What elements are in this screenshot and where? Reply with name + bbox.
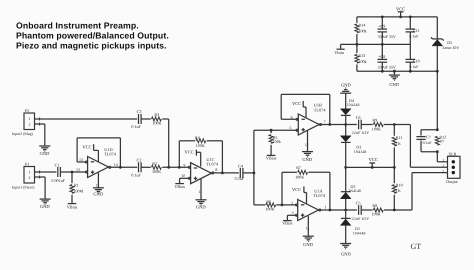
wire C4 to split node: [243, 172, 254, 174]
pin 14 output wire: [108, 166, 137, 168]
svg-text:C4: C4: [238, 163, 243, 168]
diode D1 1N4148: [345, 210, 347, 218]
node junction R11 R10: [393, 166, 396, 169]
svg-text:13: 13: [79, 157, 83, 162]
resistor R1: [71, 172, 73, 183]
connector P2: [24, 113, 35, 130]
op-amp U1A TL074: [298, 200, 319, 221]
resistor R3: [152, 117, 162, 121]
svg-text:7: 7: [324, 119, 326, 124]
svg-text:0.1uF: 0.1uF: [409, 65, 419, 69]
pin 7 output wire: [319, 124, 357, 126]
svg-text:VCC: VCC: [185, 150, 194, 155]
svg-text:Zener 30V: Zener 30V: [442, 46, 459, 50]
pin 11 ground wire U1D: [97, 173, 99, 188]
svg-text:+C8: +C8: [378, 54, 385, 59]
wire C1 to U1D pin12: [61, 171, 88, 173]
svg-text:C5: C5: [356, 200, 361, 205]
svg-text:D5: D5: [447, 40, 452, 45]
svg-text:VBias: VBias: [67, 204, 78, 209]
svg-text:8: 8: [215, 167, 217, 172]
svg-text:C1: C1: [55, 162, 60, 167]
pin 11 ground wire U1A: [307, 216, 309, 236]
power VCC on rail: [371, 163, 373, 167]
svg-text:1: 1: [29, 169, 31, 174]
svg-text:C3: C3: [137, 109, 142, 114]
wire to U1B pin5: [254, 129, 298, 131]
svg-text:GND: GND: [389, 82, 399, 87]
capacitor C11: [409, 17, 411, 29]
ground GND at U1D: [93, 187, 104, 189]
svg-text:GND: GND: [40, 151, 50, 156]
wire VCC rail to zener: [436, 17, 438, 39]
wire R3 to mid row: [162, 118, 169, 120]
node junction feedback U1B: [328, 123, 331, 126]
svg-text:1: 1: [29, 116, 31, 121]
node junction at R1: [71, 171, 74, 174]
svg-text:Piezo and magnetic pickups inp: Piezo and magnetic pickups inputs.: [16, 40, 167, 50]
svg-text:TL074: TL074: [206, 161, 219, 166]
node junction D2 on row: [344, 209, 347, 212]
svg-text:GT: GT: [411, 242, 422, 251]
power VBias at R5: [267, 154, 276, 156]
svg-text:P2: P2: [25, 108, 29, 113]
svg-text:1K: 1K: [396, 141, 401, 146]
resistor R13: [356, 44, 358, 53]
wire to R6: [254, 204, 265, 206]
capacitor C3: [138, 114, 140, 124]
svg-text:Onboard Instrument Preamp.: Onboard Instrument Preamp.: [16, 21, 139, 31]
svg-text:100K: 100K: [295, 175, 304, 180]
wire riser to XLR pin 3: [411, 173, 413, 210]
svg-text:100K: 100K: [372, 126, 381, 131]
svg-text:100K: 100K: [265, 206, 274, 211]
svg-text:1N4148: 1N4148: [353, 231, 366, 235]
svg-text:100M: 100M: [73, 189, 83, 194]
ground GND power section: [393, 71, 395, 75]
svg-text:GND: GND: [303, 242, 313, 247]
capacitor C4: [239, 168, 241, 178]
svg-text:100K: 100K: [372, 212, 381, 217]
svg-text:VBias: VBias: [174, 184, 185, 189]
svg-text:1N4148: 1N4148: [354, 150, 367, 154]
svg-text:330uF 35V: 330uF 35V: [378, 65, 396, 70]
power VBias at R1: [68, 203, 77, 205]
svg-text:6: 6: [291, 115, 293, 120]
node junction R4 feedback: [178, 166, 181, 169]
node junction D4 on row: [344, 123, 347, 126]
diode D2 1N4148: [345, 167, 347, 191]
resistor R9: [373, 123, 383, 127]
ground GND at P1: [40, 198, 51, 200]
power VBias at U1C: [175, 183, 184, 185]
ground GND at U1C: [196, 199, 207, 201]
svg-text:Vbias: Vbias: [334, 50, 344, 55]
svg-text:R11: R11: [396, 135, 403, 140]
ground GND at P2: [39, 145, 50, 147]
svg-text:11: 11: [306, 226, 310, 230]
svg-text:C6: C6: [356, 115, 361, 120]
svg-text:2: 2: [29, 175, 31, 180]
node junction R7 output: [329, 209, 332, 212]
wire VCC rail: [346, 166, 395, 168]
svg-text:Input1 (Piezo): Input1 (Piezo): [12, 186, 35, 190]
wire P1 pin2 to ground: [40, 176, 45, 178]
svg-text:0.001uF: 0.001uF: [51, 178, 65, 183]
svg-text:22uF 63V: 22uF 63V: [352, 216, 370, 221]
node junction R10 bottom: [393, 209, 396, 212]
pin 11 ground wire U1C: [200, 179, 202, 200]
capacitor C7 loop: [421, 129, 437, 131]
resistor R12: [435, 136, 439, 145]
title text: [16, 21, 169, 51]
node junction D3 on VCC rail: [344, 166, 347, 169]
power VBias at U1A: [283, 220, 292, 222]
svg-text:10: 10: [439, 139, 443, 144]
node junction R11 top: [393, 123, 396, 126]
svg-text:R4: R4: [195, 135, 200, 140]
svg-text:1N4148: 1N4148: [348, 189, 361, 193]
capacitor C9: [381, 17, 383, 29]
node junction C7 bottom: [436, 150, 439, 153]
svg-text:R6: R6: [266, 199, 271, 204]
ground GND at U1B: [302, 151, 313, 153]
svg-text:C2: C2: [137, 157, 142, 162]
svg-text:2: 2: [442, 164, 444, 168]
wire bottom rail: [357, 70, 437, 72]
svg-text:R14: R14: [358, 22, 365, 27]
pin 6 wire: [281, 118, 298, 120]
svg-text:10: 10: [181, 173, 185, 178]
diode D4 1N4148: [340, 109, 351, 115]
op-amp U1B TL074: [298, 114, 319, 135]
node output junction U1D: [119, 166, 122, 169]
svg-text:R7: R7: [296, 165, 301, 170]
resistor R14: [356, 17, 358, 23]
node junction R7 feedback: [281, 204, 284, 207]
svg-text:D4: D4: [349, 98, 354, 103]
svg-text:P1: P1: [25, 162, 29, 167]
svg-text:9: 9: [183, 162, 185, 167]
node junction R4 output: [221, 172, 224, 175]
svg-text:1K: 1K: [396, 188, 401, 193]
op-amp U1D TL074: [88, 157, 109, 178]
svg-text:R2: R2: [152, 161, 157, 166]
svg-text:0.1uF: 0.1uF: [409, 34, 419, 38]
node junction C7 top: [436, 128, 439, 131]
capacitor C1: [57, 167, 59, 177]
node junction zener bottom rail: [436, 70, 439, 73]
wire R6 to U1A pin2: [276, 204, 298, 206]
svg-text:R1: R1: [74, 183, 79, 188]
pin 8 output wire: [211, 172, 239, 174]
svg-text:GND: GND: [93, 192, 103, 197]
resistor R6: [266, 203, 276, 207]
node junction C4 split: [253, 172, 256, 175]
svg-text:GND: GND: [341, 83, 351, 88]
svg-text:22uF 63V: 22uF 63V: [352, 130, 370, 135]
svg-text:1: 1: [324, 205, 326, 210]
svg-text:TL074: TL074: [313, 193, 326, 198]
svg-text:VCC: VCC: [396, 7, 405, 12]
wire R9 to XLR pin2 riser: [384, 124, 411, 126]
pin 11 ground wire U1B: [307, 131, 309, 152]
zener diode D5 Zener 30V: [433, 38, 443, 40]
connector XLR Output: [448, 156, 461, 178]
svg-text:GND: GND: [40, 204, 50, 209]
svg-text:2: 2: [29, 121, 31, 126]
svg-text:R13: R13: [358, 53, 365, 58]
svg-text:VCC: VCC: [82, 145, 91, 150]
svg-text:11: 11: [305, 143, 309, 147]
svg-text:2: 2: [291, 200, 293, 205]
svg-text:100k: 100k: [273, 139, 282, 144]
svg-text:R3: R3: [154, 112, 159, 117]
svg-text:VCC: VCC: [369, 157, 378, 162]
svg-text:14: 14: [114, 162, 118, 167]
svg-text:12: 12: [76, 167, 80, 172]
svg-text:C7: C7: [426, 135, 431, 140]
feedback wire U1D: [76, 138, 78, 162]
pin 10 wire and VBias: [180, 177, 191, 179]
svg-text:3: 3: [442, 170, 444, 174]
svg-text:XLR: XLR: [448, 151, 457, 156]
svg-text:11: 11: [198, 190, 202, 194]
svg-text:R9: R9: [372, 118, 377, 123]
svg-text:0.1uF: 0.1uF: [423, 141, 433, 145]
pin 13 wire: [77, 161, 88, 163]
node junction R3 drop: [167, 166, 170, 169]
svg-text:100k: 100k: [358, 28, 367, 33]
resistor R2: [152, 165, 162, 169]
wire top rail: [357, 16, 437, 18]
power Vbias stub: [337, 48, 345, 50]
node junction R5: [270, 129, 273, 132]
capacitor C8: [378, 58, 388, 60]
wire P1 pin1 to C1: [40, 171, 56, 173]
svg-text:Input2 (Mag): Input2 (Mag): [12, 132, 34, 136]
pin 1 output wire: [319, 209, 357, 211]
resistor R8: [373, 208, 383, 212]
capacitor C6: [358, 120, 360, 130]
svg-text:R8: R8: [372, 203, 377, 208]
svg-text:C11: C11: [413, 28, 420, 33]
capacitor C2: [138, 162, 140, 172]
capacitor C10: [406, 58, 416, 60]
svg-text:0.2uF: 0.2uF: [235, 176, 245, 181]
capacitor C5: [358, 205, 360, 215]
resistor R11: [393, 125, 395, 136]
svg-text:5: 5: [289, 125, 291, 130]
resistor R5: [270, 130, 272, 133]
svg-text:Output: Output: [446, 179, 458, 184]
wire riser to XLR pin 2: [409, 125, 411, 168]
svg-text:TL074: TL074: [314, 107, 327, 112]
wire Vbias mid rail: [341, 43, 411, 45]
ground GND at U1A: [303, 235, 314, 237]
ground GND below D1: [340, 243, 351, 245]
svg-text:0.1uF: 0.1uF: [131, 172, 141, 177]
svg-text:TL074: TL074: [104, 152, 117, 157]
svg-text:330uF 35V: 330uF 35V: [378, 34, 396, 39]
svg-text:100k: 100k: [358, 59, 367, 64]
wire to XLR pin 1: [436, 152, 438, 162]
svg-text:11: 11: [96, 183, 100, 187]
connector P1: [24, 167, 35, 184]
svg-text:100K: 100K: [152, 169, 161, 174]
svg-text:C10: C10: [413, 59, 420, 64]
op-amp U1C TL074: [191, 163, 212, 184]
wire R8 to XLR pin3 riser: [384, 209, 412, 211]
svg-text:1: 1: [442, 159, 444, 163]
diode D3 1N4148: [345, 125, 347, 136]
svg-text:Phantom powered/Balanced Outpu: Phantom powered/Balanced Output.: [16, 31, 169, 41]
svg-text:100K: 100K: [152, 121, 161, 126]
svg-text:GND: GND: [302, 157, 312, 162]
svg-text:+C9: +C9: [378, 24, 385, 29]
svg-text:100K: 100K: [196, 143, 205, 148]
resistor R10: [393, 167, 395, 183]
svg-text:3: 3: [292, 210, 294, 215]
feedback wire U1B: [280, 94, 282, 119]
wire P2 pin1 row: [40, 118, 137, 120]
svg-text:GND: GND: [341, 251, 351, 256]
pin 3 wire and VBias: [287, 214, 297, 216]
wire P2 pin2 to ground: [40, 123, 45, 125]
svg-text:1N4148: 1N4148: [347, 103, 360, 107]
svg-text:VCC: VCC: [292, 101, 301, 106]
svg-text:VBias: VBias: [266, 156, 277, 161]
svg-text:0.1uF: 0.1uF: [131, 124, 141, 129]
resistor R4 feedback: [178, 141, 180, 168]
svg-text:VCC: VCC: [292, 187, 301, 192]
svg-text:GND: GND: [196, 205, 206, 210]
svg-text:VBias: VBias: [282, 221, 293, 226]
resistor R7 feedback: [281, 172, 283, 205]
